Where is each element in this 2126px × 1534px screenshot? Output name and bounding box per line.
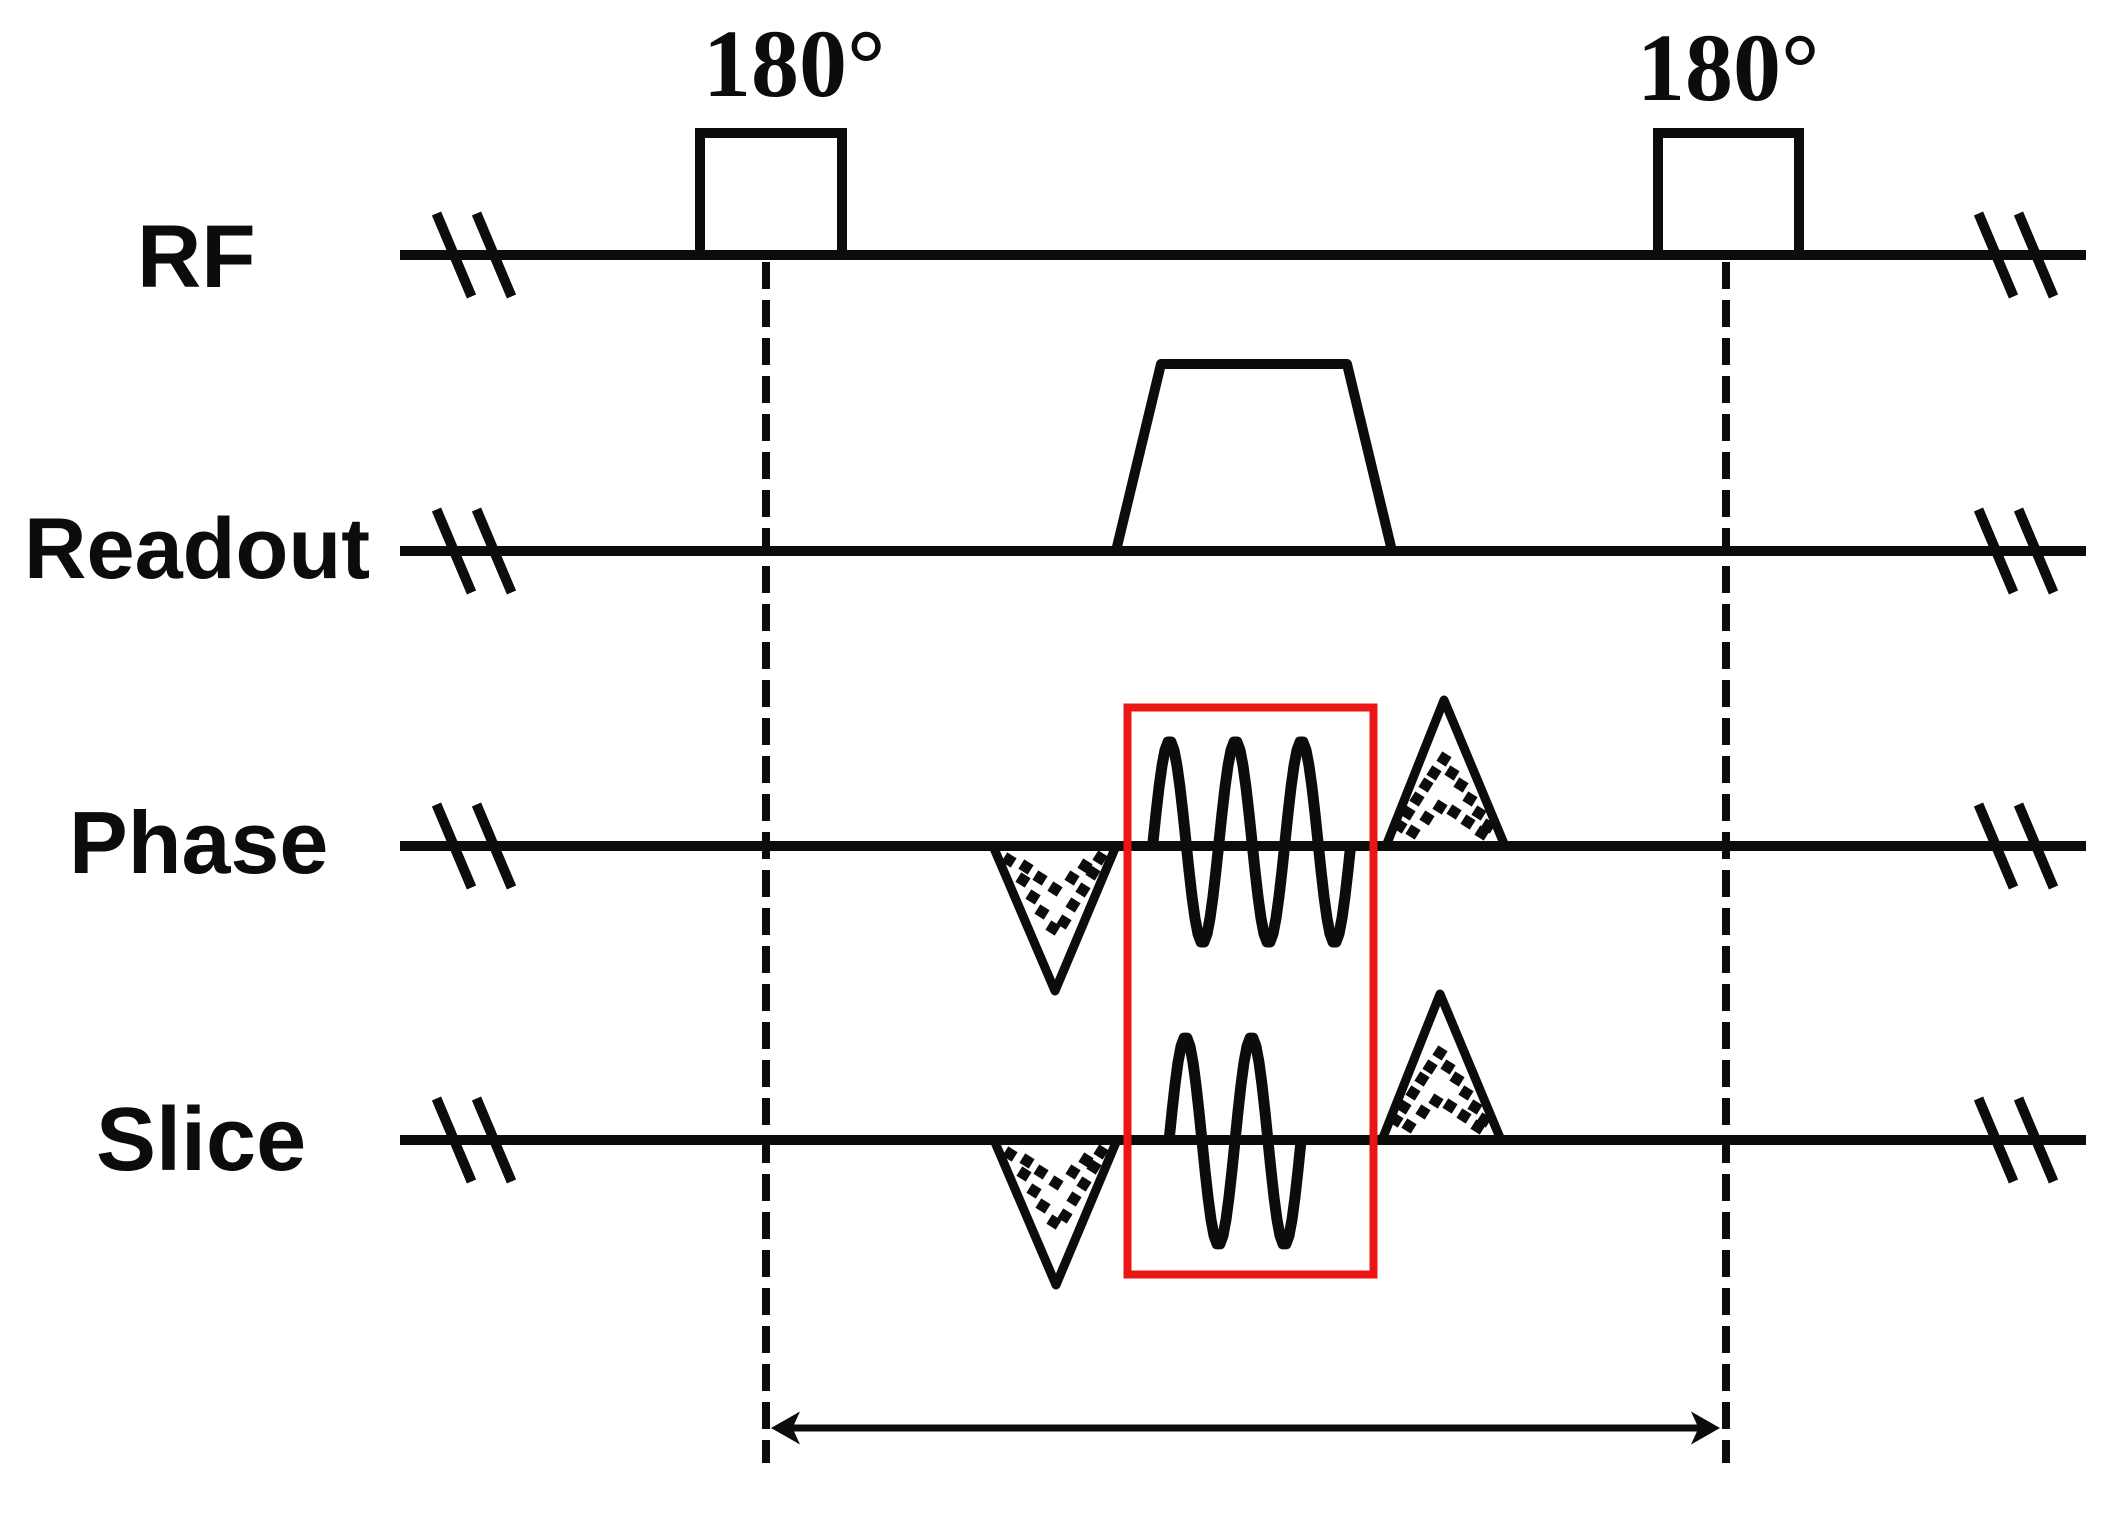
- wire Phase baseline: [400, 841, 2086, 851]
- Slice rephasing lobe (dotted up-triangle): [1382, 994, 1501, 1140]
- svg-text:Readout: Readout: [24, 501, 370, 597]
- Phase break left: [437, 805, 512, 888]
- dashed echo-time marker right: [1722, 262, 1730, 1463]
- RF break left: [437, 214, 512, 297]
- svg-text:180°: 180°: [703, 10, 885, 117]
- label Readout: [24, 501, 370, 597]
- Slice break left: [437, 1099, 512, 1182]
- Slice oscillating gradient (sine burst): [1169, 1038, 1301, 1244]
- Phase dephasing lobe (dotted down-triangle): [993, 846, 1116, 991]
- highlight red box: [1128, 708, 1374, 1275]
- Readout break right: [1979, 510, 2054, 593]
- RF 180 pulse left: [700, 133, 842, 255]
- RF break right: [1979, 214, 2054, 297]
- interval double arrow: [771, 1412, 1720, 1445]
- svg-text:RF: RF: [137, 206, 256, 306]
- dashed echo-time marker left: [762, 262, 770, 1463]
- svg-text:Phase: Phase: [69, 793, 328, 892]
- wire Slice baseline: [400, 1135, 2086, 1145]
- Phase break right: [1979, 805, 2054, 888]
- svg-text:180°: 180°: [1637, 14, 1819, 121]
- Slice break right: [1979, 1099, 2054, 1182]
- Slice dephasing lobe (dotted down-triangle): [994, 1140, 1117, 1285]
- label 180-left: [703, 10, 885, 117]
- wire RF baseline: [400, 250, 2086, 260]
- Phase oscillating gradient (sine burst): [1153, 742, 1351, 942]
- RF 180 pulse right: [1658, 133, 1799, 255]
- label RF: [137, 206, 256, 306]
- Readout gradient trapezoid: [1116, 364, 1392, 551]
- Phase rephasing lobe (dotted up-triangle): [1386, 700, 1505, 846]
- svg-text:Slice: Slice: [96, 1090, 306, 1190]
- label Slice: [96, 1090, 306, 1190]
- label 180-right: [1637, 14, 1819, 121]
- wire Readout baseline: [400, 546, 2086, 556]
- Readout break left: [437, 510, 512, 593]
- label Phase: [69, 793, 328, 892]
